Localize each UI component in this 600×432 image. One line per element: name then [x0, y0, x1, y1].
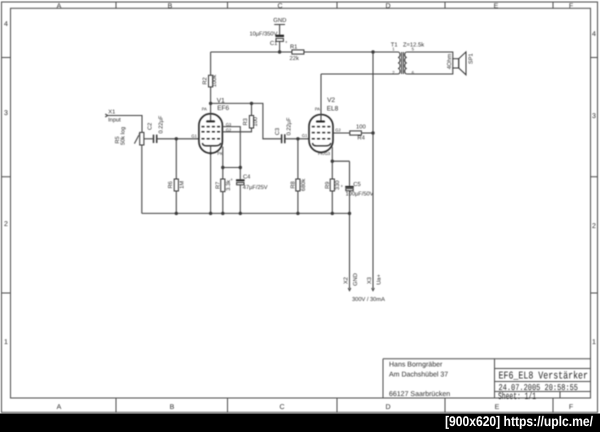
- resistor R9: [325, 161, 341, 213]
- tube V2 cathode: [313, 143, 331, 146]
- svg-text:D: D: [385, 3, 390, 10]
- resistor R6: [168, 139, 186, 214]
- tube V1 grid g3: [202, 126, 221, 128]
- svg-text:4: 4: [592, 31, 596, 38]
- wire V2 cathode node horizontal: [332, 160, 349, 162]
- svg-text:100µF/50V: 100µF/50V: [346, 190, 374, 197]
- tube V1 anode: [206, 103, 215, 122]
- svg-text:100k: 100k: [211, 75, 218, 87]
- node X3 supply junction: [371, 50, 374, 53]
- node R3 top: [250, 102, 253, 105]
- tube V1 cathode: [202, 143, 220, 146]
- column labels bottom A-F: [57, 404, 573, 411]
- capacitor C1: [249, 31, 288, 47]
- svg-text:Input: Input: [108, 118, 121, 124]
- svg-text:E: E: [494, 3, 499, 10]
- svg-text:+: +: [285, 40, 288, 45]
- svg-text:R4: R4: [357, 136, 365, 142]
- svg-text:C3: C3: [275, 128, 281, 135]
- frame column ticks bottom: [116, 398, 553, 412]
- row labels right 4-1: [592, 31, 596, 346]
- svg-text:0.22µF: 0.22µF: [286, 117, 292, 135]
- svg-text:Hans Borngräber: Hans Borngräber: [389, 360, 443, 368]
- svg-text:GND: GND: [353, 273, 359, 286]
- svg-text:R9: R9: [325, 182, 331, 189]
- svg-text:G1: G1: [302, 133, 308, 138]
- wire GND to C1: [279, 25, 281, 35]
- svg-text:X2: X2: [343, 277, 349, 284]
- svg-text:100: 100: [253, 117, 259, 127]
- tube V2 envelope: [309, 115, 333, 153]
- potentiometer R5: [115, 127, 144, 145]
- svg-text:Am Dachshübel 37: Am Dachshübel 37: [389, 371, 448, 379]
- wire V2 g2 to R4: [333, 132, 350, 134]
- connector X1: [105, 109, 121, 123]
- wire V1 cathode PK: [222, 147, 224, 168]
- svg-text:C2: C2: [147, 123, 153, 130]
- svg-text:EF6_EL8 Verstärker: EF6_EL8 Verstärker: [499, 371, 589, 383]
- svg-text:PK/G3: PK/G3: [318, 151, 331, 156]
- svg-text:300V / 30mA: 300V / 30mA: [352, 296, 385, 303]
- svg-text:10µF/350V: 10µF/350V: [249, 31, 277, 38]
- connector X3: [367, 274, 383, 291]
- node R4 X3: [371, 131, 374, 134]
- svg-text:F: F: [569, 3, 573, 10]
- wire V1 metallization to rail: [210, 146, 212, 214]
- node V1 plate junction: [209, 102, 212, 105]
- frame row ticks left: [2, 58, 11, 294]
- resistor R4: [350, 124, 366, 142]
- svg-text:D: D: [385, 404, 390, 411]
- wire R4 to X3 line: [361, 132, 373, 134]
- svg-text:B: B: [168, 3, 173, 10]
- tube V2 grid g2: [312, 132, 331, 134]
- wire V2 cathode PK/G3: [331, 147, 333, 161]
- svg-text:4: 4: [4, 21, 8, 28]
- frame column ticks top: [116, 2, 553, 8]
- svg-text:C5: C5: [353, 181, 360, 188]
- svg-text:Sheet: 1/1: Sheet: 1/1: [498, 391, 536, 402]
- title block outline: [383, 359, 591, 398]
- svg-text:X3: X3: [367, 277, 373, 284]
- svg-text:1M: 1M: [180, 181, 186, 189]
- resistor R1: [290, 44, 304, 61]
- title block address text: [389, 360, 450, 398]
- resistor R3: [222, 103, 259, 131]
- wire R5 bottom to ground rail: [141, 145, 143, 213]
- svg-text:R1: R1: [290, 44, 297, 50]
- svg-text:R3: R3: [243, 118, 249, 125]
- frame row ticks right: [591, 58, 598, 294]
- svg-text:C4: C4: [243, 173, 251, 180]
- wire C1 to supply: [279, 41, 281, 52]
- capacitor C5: [341, 161, 374, 213]
- tube V2 grid g3: [312, 126, 331, 128]
- svg-text:2: 2: [592, 223, 596, 230]
- wire cathode node horizontal: [223, 167, 241, 169]
- rail junction nodes: [175, 212, 352, 215]
- svg-text:3: 3: [4, 110, 8, 117]
- svg-text:R6: R6: [168, 181, 174, 188]
- svg-text:PK: PK: [217, 151, 223, 156]
- svg-text:4Ohm: 4Ohm: [446, 53, 453, 69]
- wire C2 to V1 grid: [157, 138, 199, 140]
- watermark bar: [0, 414, 600, 432]
- svg-text:GND: GND: [273, 17, 286, 24]
- svg-text:PA: PA: [315, 106, 320, 111]
- tube V2 grid g1: [312, 138, 331, 140]
- capacitor C4: [230, 168, 268, 214]
- tube V1 envelope: [199, 114, 223, 154]
- svg-text:C: C: [277, 3, 282, 10]
- svg-text:EL8: EL8: [327, 106, 339, 113]
- svg-text:C1: C1: [270, 40, 278, 47]
- speaker SP1: [446, 52, 475, 75]
- tube V1 grid g1: [202, 138, 221, 140]
- svg-text:66127 Saarbrücken: 66127 Saarbrücken: [389, 390, 450, 398]
- svg-text:E: E: [495, 404, 500, 411]
- wire rail to X2: [349, 213, 351, 288]
- node V1 PM pin: [209, 152, 212, 155]
- svg-text:0.22µF: 0.22µF: [159, 115, 165, 133]
- tube V1 grid g2: [202, 131, 221, 133]
- svg-text:G1: G1: [191, 134, 197, 139]
- column labels top A-F: [57, 3, 573, 10]
- wire V1 plate node: [211, 103, 282, 138]
- svg-text:+: +: [230, 177, 233, 182]
- tube V1 labels: [202, 98, 230, 112]
- tube V2 labels: [315, 97, 339, 113]
- svg-text:+: +: [341, 183, 344, 188]
- ground symbol GND: [273, 17, 286, 25]
- wire X1 to R5 top: [108, 116, 142, 133]
- resistor R8: [291, 139, 308, 214]
- row labels left 4-1: [4, 21, 8, 346]
- node C1 junction: [278, 50, 281, 53]
- wire supply to X3: [372, 52, 374, 288]
- svg-text:50k log: 50k log: [119, 127, 126, 145]
- node cathode C4: [239, 166, 242, 169]
- node cathode R7: [221, 166, 224, 169]
- svg-text:EF6: EF6: [217, 105, 229, 112]
- svg-text:1: 1: [592, 339, 596, 346]
- svg-text:X1: X1: [108, 109, 115, 115]
- svg-text:A: A: [57, 404, 62, 411]
- svg-text:2: 2: [4, 221, 8, 228]
- svg-text:22k: 22k: [290, 55, 299, 62]
- tube V2 pin labels: [302, 127, 342, 156]
- node V2 cathode: [331, 160, 334, 163]
- ground rail: [142, 212, 350, 214]
- svg-text:100: 100: [356, 124, 366, 131]
- svg-text:SP1: SP1: [469, 53, 475, 64]
- svg-text:[900x620] https://uplc.me/: [900x620] https://uplc.me/: [445, 413, 593, 429]
- svg-text:PA: PA: [202, 106, 207, 111]
- capacitor C3: [275, 117, 292, 143]
- svg-text:3: 3: [592, 113, 596, 120]
- supply wire top: [211, 51, 398, 53]
- tube V2 anode: [316, 74, 325, 123]
- node R6 top: [175, 137, 178, 140]
- connector X2: [343, 273, 359, 290]
- svg-text:A: A: [57, 3, 62, 10]
- svg-text:V2: V2: [327, 97, 335, 104]
- svg-text:F: F: [569, 404, 573, 411]
- wire C3 to V2 grid: [286, 138, 310, 140]
- tube V1 pin labels: [191, 122, 231, 156]
- svg-text:C: C: [279, 404, 284, 411]
- wire R5 wiper to C2: [144, 138, 153, 140]
- wire T1 primary bottom to V2 plate: [321, 73, 398, 75]
- wire T1 secondary to speaker: [407, 52, 453, 74]
- svg-text:47µF/25V: 47µF/25V: [243, 184, 268, 191]
- resistor R2: [202, 52, 218, 103]
- svg-text:1: 1: [4, 339, 8, 346]
- wire V1 g3 to cathode node: [222, 127, 240, 168]
- svg-text:R8: R8: [291, 181, 297, 188]
- svg-text:R2: R2: [202, 77, 208, 84]
- transformer T1: [391, 41, 424, 74]
- svg-text:680k: 680k: [300, 179, 307, 191]
- svg-text:R7: R7: [215, 182, 221, 189]
- resistor R7: [215, 168, 232, 214]
- svg-text:Ua+: Ua+: [376, 274, 382, 285]
- capacitor C2: [147, 115, 164, 143]
- svg-text:B: B: [170, 404, 175, 411]
- svg-text:G2: G2: [335, 127, 341, 132]
- node R8 top: [296, 137, 299, 140]
